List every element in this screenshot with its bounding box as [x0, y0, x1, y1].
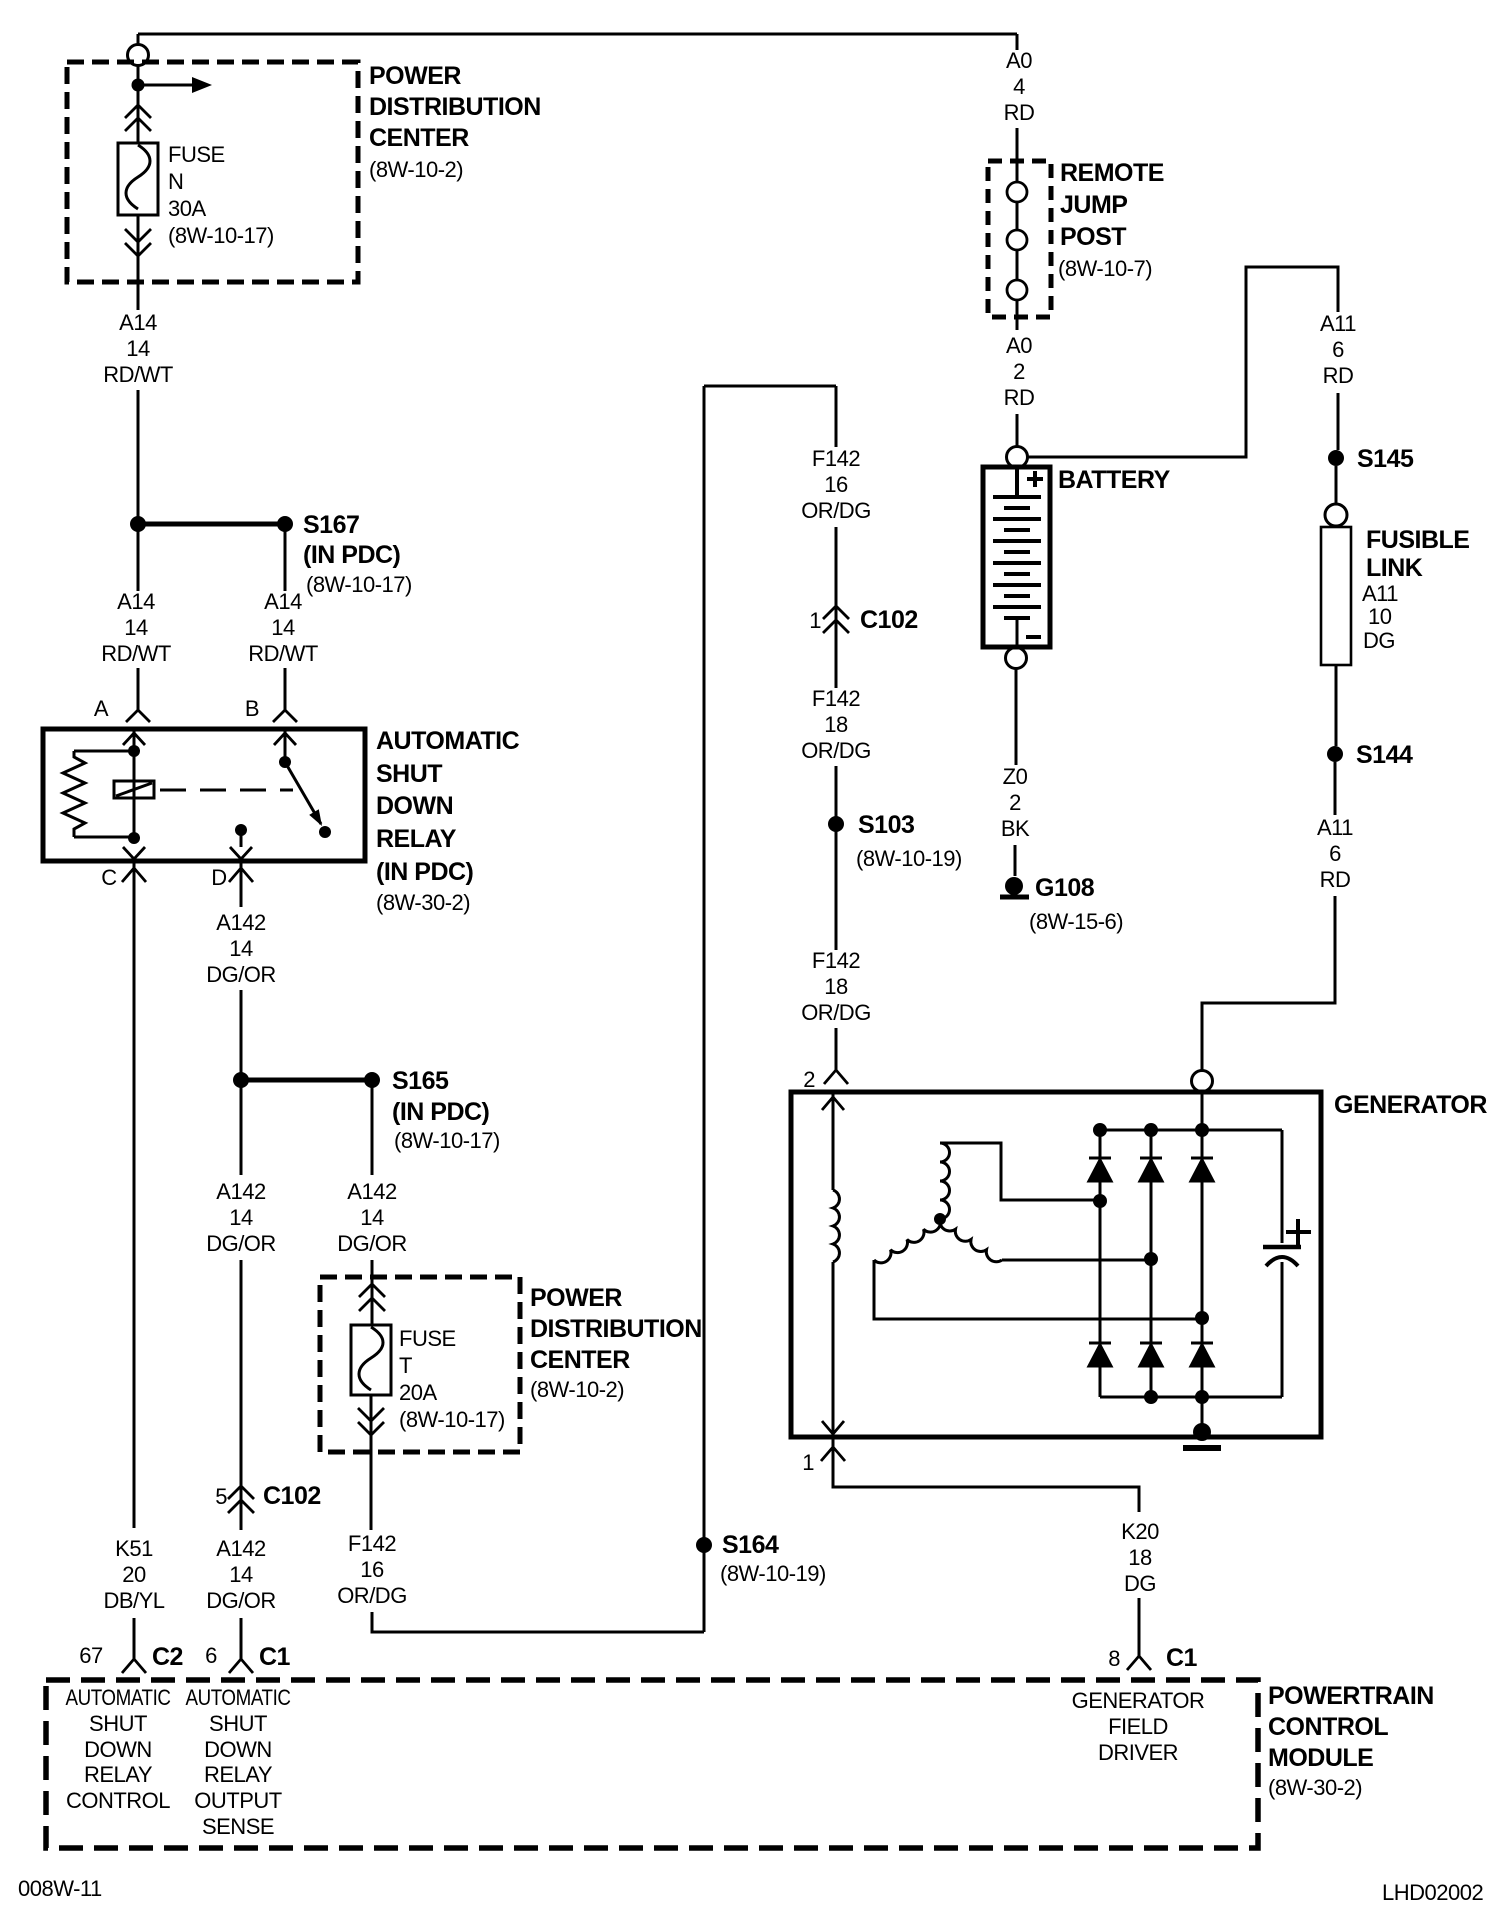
svg-text:OR/DG: OR/DG: [801, 738, 871, 763]
svg-text:C: C: [101, 865, 117, 890]
svg-text:AUTOMATIC: AUTOMATIC: [376, 727, 520, 755]
svg-text:F142: F142: [348, 1531, 396, 1556]
svg-text:AUTOMATIC: AUTOMATIC: [186, 1685, 292, 1710]
svg-text:CONTROL: CONTROL: [1268, 1713, 1388, 1741]
svg-text:16: 16: [360, 1557, 384, 1582]
svg-text:(8W-10-17): (8W-10-17): [168, 223, 274, 248]
svg-text:DOWN: DOWN: [84, 1737, 152, 1762]
svg-text:A11: A11: [1320, 311, 1356, 336]
svg-text:14: 14: [229, 1562, 253, 1587]
svg-text:DISTRIBUTION: DISTRIBUTION: [530, 1315, 702, 1343]
svg-text:4: 4: [1013, 74, 1025, 99]
svg-text:DG/OR: DG/OR: [206, 1588, 276, 1613]
svg-text:(8W-10-2): (8W-10-2): [530, 1377, 624, 1402]
svg-text:S167: S167: [303, 511, 359, 539]
svg-text:D: D: [211, 865, 226, 890]
svg-text:(8W-10-17): (8W-10-17): [394, 1128, 500, 1153]
svg-text:N: N: [168, 169, 183, 194]
svg-text:F142: F142: [812, 686, 860, 711]
svg-text:A142: A142: [216, 1179, 266, 1204]
svg-text:A142: A142: [216, 910, 266, 935]
svg-text:BK: BK: [1001, 816, 1030, 841]
svg-text:S144: S144: [1356, 741, 1413, 769]
svg-text:LINK: LINK: [1366, 554, 1423, 582]
svg-text:F142: F142: [812, 948, 860, 973]
svg-text:(8W-10-19): (8W-10-19): [856, 846, 962, 871]
svg-text:14: 14: [126, 336, 150, 361]
svg-text:FUSIBLE: FUSIBLE: [1366, 526, 1469, 554]
svg-text:A14: A14: [117, 589, 155, 614]
svg-text:14: 14: [124, 615, 148, 640]
svg-text:A14: A14: [119, 310, 157, 335]
svg-text:A: A: [94, 696, 109, 721]
svg-text:OR/DG: OR/DG: [801, 1000, 871, 1025]
svg-text:67: 67: [79, 1643, 103, 1668]
svg-text:FIELD: FIELD: [1108, 1714, 1168, 1739]
svg-text:(8W-10-17): (8W-10-17): [399, 1407, 505, 1432]
svg-text:008W-11: 008W-11: [18, 1876, 102, 1901]
svg-text:C102: C102: [263, 1482, 321, 1510]
svg-text:RD/WT: RD/WT: [248, 641, 318, 666]
svg-text:BATTERY: BATTERY: [1058, 466, 1171, 494]
svg-text:(8W-10-2): (8W-10-2): [369, 157, 463, 182]
svg-text:SHUT: SHUT: [209, 1711, 267, 1736]
svg-text:A11: A11: [1362, 581, 1398, 606]
svg-text:14: 14: [229, 936, 253, 961]
svg-text:G108: G108: [1035, 874, 1095, 902]
svg-text:(IN PDC): (IN PDC): [376, 858, 474, 886]
svg-text:14: 14: [360, 1205, 384, 1230]
svg-text:6: 6: [205, 1643, 217, 1668]
svg-text:RD: RD: [1004, 100, 1035, 125]
svg-text:2: 2: [1013, 359, 1025, 384]
svg-text:6: 6: [1332, 337, 1344, 362]
svg-text:S103: S103: [858, 811, 914, 839]
svg-text:A11: A11: [1317, 815, 1353, 840]
svg-text:RD: RD: [1004, 385, 1035, 410]
svg-text:(IN PDC): (IN PDC): [392, 1098, 490, 1126]
svg-text:POWER: POWER: [530, 1284, 622, 1312]
svg-text:POWER: POWER: [369, 62, 461, 90]
svg-text:DG/OR: DG/OR: [206, 1231, 276, 1256]
svg-text:18: 18: [1128, 1545, 1152, 1570]
svg-text:T: T: [399, 1353, 412, 1378]
svg-text:JUMP: JUMP: [1060, 191, 1127, 219]
svg-text:AUTOMATIC: AUTOMATIC: [66, 1685, 172, 1710]
svg-text:8: 8: [1108, 1646, 1120, 1671]
svg-text:10: 10: [1368, 604, 1392, 629]
svg-text:6: 6: [1329, 841, 1341, 866]
svg-text:SHUT: SHUT: [376, 760, 442, 788]
svg-text:RELAY: RELAY: [84, 1762, 153, 1787]
svg-text:SHUT: SHUT: [89, 1711, 147, 1736]
svg-text:CENTER: CENTER: [369, 124, 469, 152]
svg-text:DB/YL: DB/YL: [103, 1588, 164, 1613]
svg-text:1: 1: [802, 1450, 814, 1475]
svg-text:DG: DG: [1124, 1571, 1156, 1596]
svg-text:(8W-30-2): (8W-30-2): [1268, 1775, 1362, 1800]
svg-text:S165: S165: [392, 1067, 449, 1095]
svg-text:DISTRIBUTION: DISTRIBUTION: [369, 93, 541, 121]
svg-text:F142: F142: [812, 446, 860, 471]
svg-text:GENERATOR: GENERATOR: [1334, 1091, 1487, 1119]
svg-text:DG: DG: [1363, 628, 1395, 653]
svg-text:FUSE: FUSE: [399, 1326, 456, 1351]
svg-text:S164: S164: [722, 1531, 779, 1559]
svg-text:(8W-30-2): (8W-30-2): [376, 890, 470, 915]
svg-text:OR/DG: OR/DG: [337, 1583, 407, 1608]
svg-text:POWERTRAIN: POWERTRAIN: [1268, 1682, 1434, 1710]
svg-text:SENSE: SENSE: [202, 1814, 274, 1839]
svg-text:14: 14: [271, 615, 295, 640]
svg-text:K51: K51: [115, 1536, 153, 1561]
svg-text:A142: A142: [216, 1536, 266, 1561]
svg-text:Z0: Z0: [1003, 764, 1028, 789]
svg-text:A14: A14: [264, 589, 302, 614]
svg-text:5: 5: [215, 1484, 227, 1509]
svg-text:16: 16: [824, 472, 848, 497]
svg-text:RD: RD: [1320, 867, 1351, 892]
svg-text:A0: A0: [1006, 333, 1032, 358]
svg-text:OUTPUT: OUTPUT: [194, 1788, 282, 1813]
svg-text:A142: A142: [347, 1179, 397, 1204]
svg-text:C2: C2: [152, 1643, 183, 1671]
svg-text:2: 2: [803, 1067, 815, 1092]
svg-text:C1: C1: [1166, 1644, 1198, 1672]
svg-text:REMOTE: REMOTE: [1060, 159, 1164, 187]
svg-text:30A: 30A: [168, 196, 206, 221]
svg-text:CENTER: CENTER: [530, 1346, 630, 1374]
svg-text:S145: S145: [1357, 445, 1414, 473]
svg-text:LHD02002: LHD02002: [1382, 1880, 1483, 1905]
svg-text:2: 2: [1009, 790, 1021, 815]
svg-text:14: 14: [229, 1205, 253, 1230]
svg-text:OR/DG: OR/DG: [801, 498, 871, 523]
svg-text:18: 18: [824, 974, 848, 999]
svg-text:DG/OR: DG/OR: [206, 962, 276, 987]
svg-text:(8W-10-19): (8W-10-19): [720, 1561, 826, 1586]
svg-text:(8W-10-17): (8W-10-17): [306, 572, 412, 597]
svg-text:RELAY: RELAY: [376, 825, 457, 853]
svg-text:(8W-15-6): (8W-15-6): [1029, 909, 1123, 934]
svg-text:DOWN: DOWN: [204, 1737, 272, 1762]
svg-text:C1: C1: [259, 1643, 291, 1671]
svg-text:B: B: [245, 696, 259, 721]
svg-text:MODULE: MODULE: [1268, 1744, 1373, 1772]
svg-text:FUSE: FUSE: [168, 142, 225, 167]
svg-text:RD: RD: [1323, 363, 1354, 388]
svg-text:GENERATOR: GENERATOR: [1072, 1688, 1205, 1713]
svg-text:RELAY: RELAY: [204, 1762, 273, 1787]
svg-text:18: 18: [824, 712, 848, 737]
svg-text:DOWN: DOWN: [376, 792, 453, 820]
svg-text:20: 20: [122, 1562, 146, 1587]
svg-text:K20: K20: [1121, 1519, 1159, 1544]
svg-text:(8W-10-7): (8W-10-7): [1058, 256, 1152, 281]
svg-text:DG/OR: DG/OR: [337, 1231, 407, 1256]
svg-text:DRIVER: DRIVER: [1098, 1740, 1178, 1765]
svg-text:RD/WT: RD/WT: [101, 641, 171, 666]
svg-text:(IN PDC): (IN PDC): [303, 541, 401, 569]
svg-text:1: 1: [809, 608, 821, 633]
svg-text:C102: C102: [860, 606, 918, 634]
svg-text:POST: POST: [1060, 223, 1126, 251]
svg-text:CONTROL: CONTROL: [66, 1788, 170, 1813]
svg-text:RD/WT: RD/WT: [103, 362, 173, 387]
svg-text:A0: A0: [1006, 48, 1032, 73]
svg-text:20A: 20A: [399, 1380, 437, 1405]
